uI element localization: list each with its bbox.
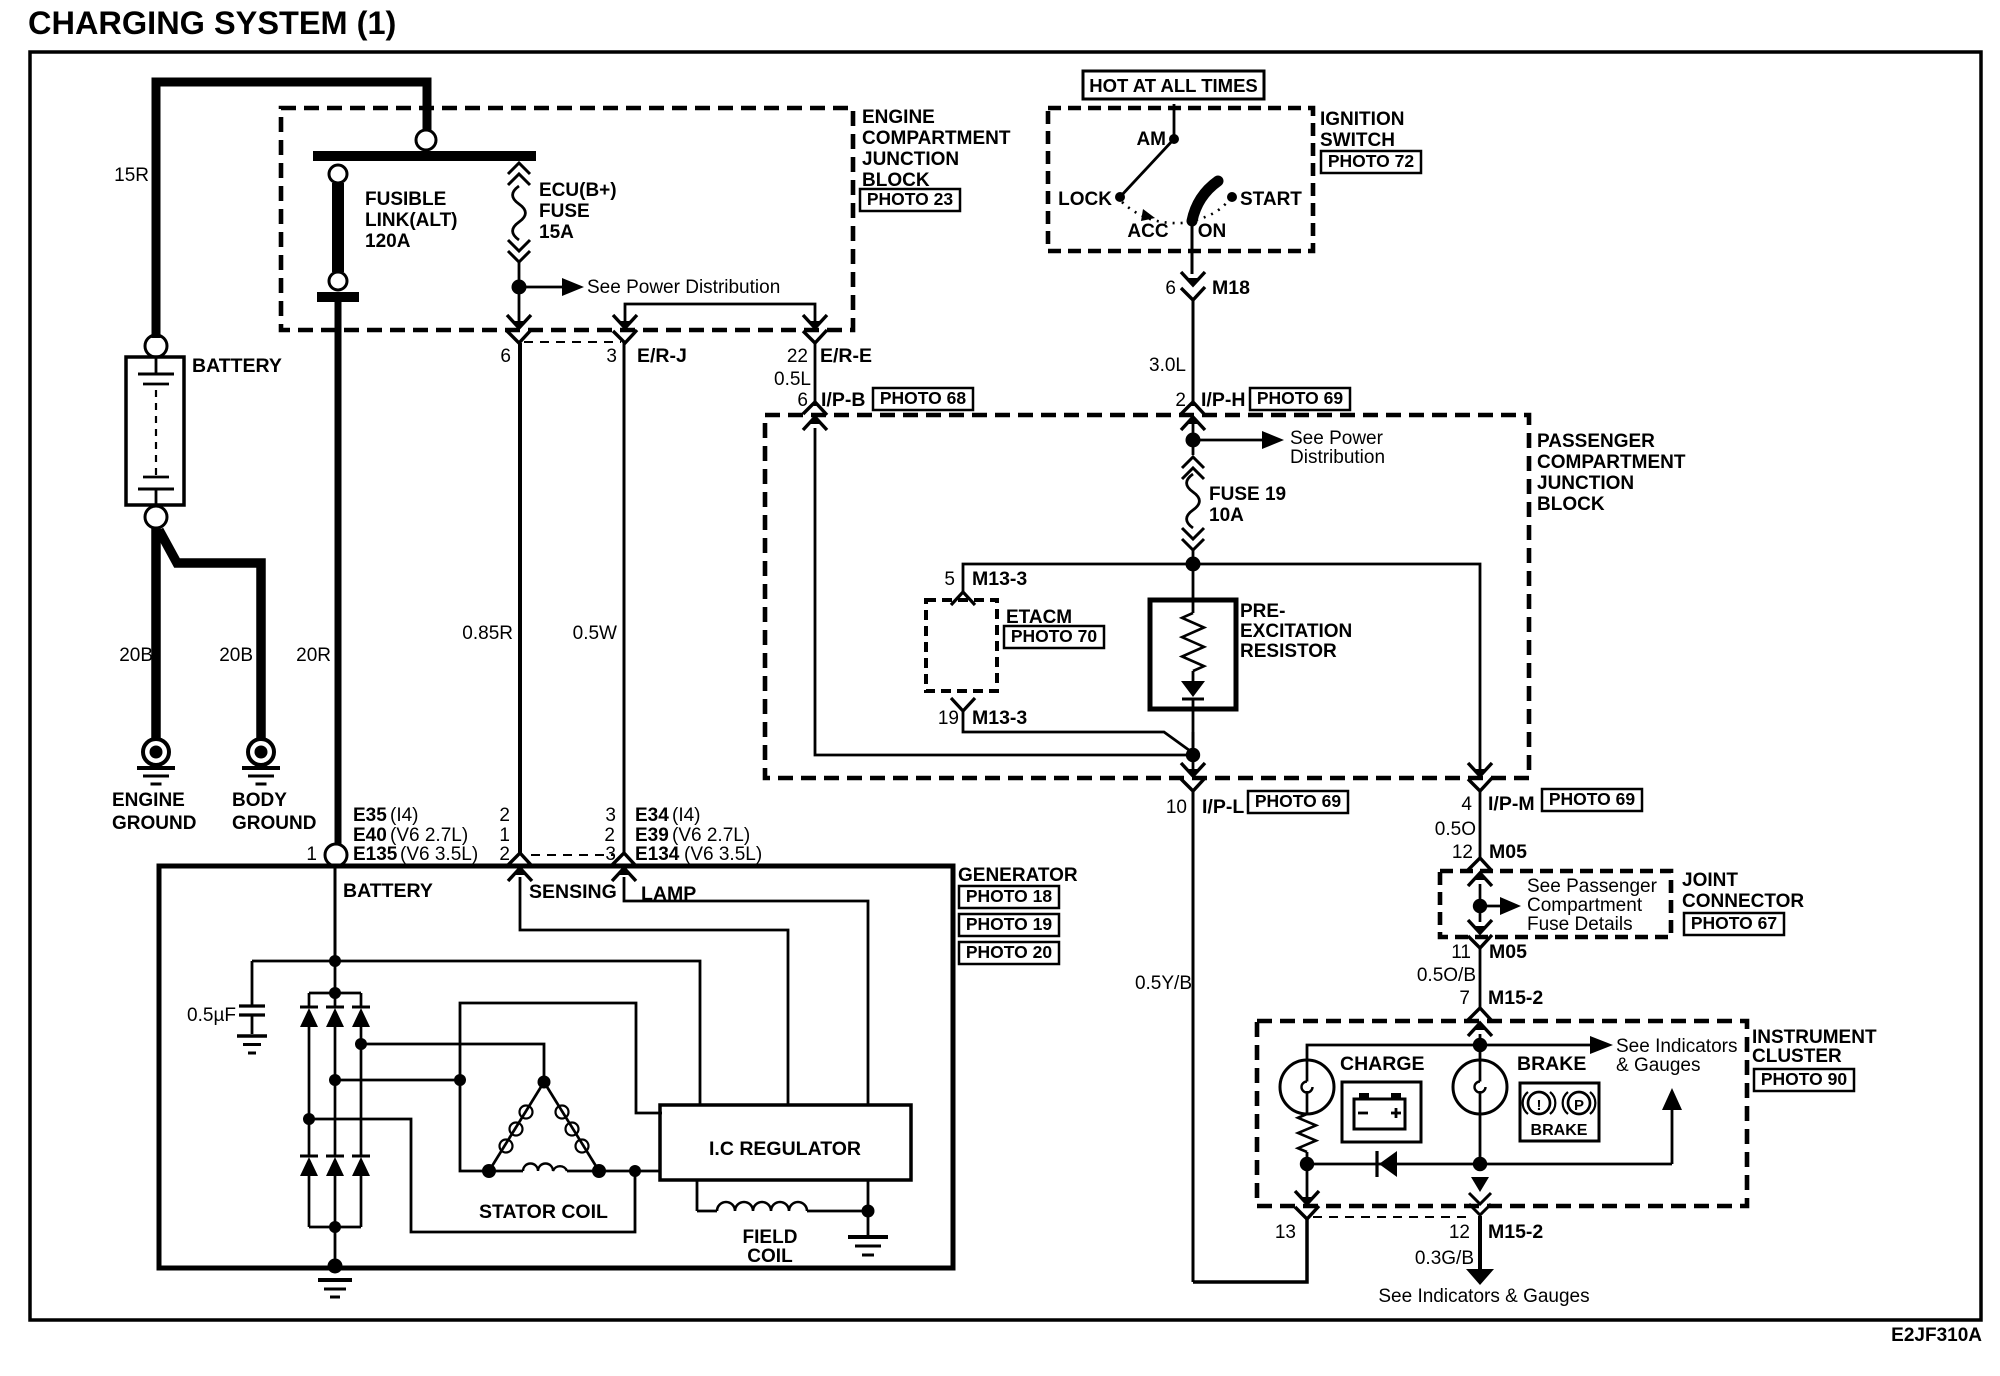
fusible link bottom circle — [329, 272, 347, 290]
svg-text:CONNECTOR: CONNECTOR — [1682, 891, 1804, 912]
connector circle battery bottom — [145, 506, 167, 528]
diode D1 (pointing left) — [1307, 1163, 1672, 1166]
svg-text:AM: AM — [1136, 129, 1166, 150]
LOCK contact — [1115, 192, 1125, 202]
field coil ground — [848, 1235, 888, 1239]
photo 19 box — [959, 914, 1059, 936]
svg-text:PHOTO 19: PHOTO 19 — [966, 914, 1053, 934]
svg-text:ENGINE: ENGINE — [862, 107, 935, 128]
svg-text:ECU(B+): ECU(B+) — [539, 180, 617, 201]
photo 67 box — [1684, 913, 1784, 935]
engine compartment junction block (dashed) — [281, 108, 853, 330]
svg-text:COMPARTMENT: COMPARTMENT — [1537, 452, 1686, 473]
svg-text:10A: 10A — [1209, 505, 1244, 526]
connector 13 (cluster bottom) — [1295, 1191, 1319, 1219]
svg-text:GROUND: GROUND — [112, 813, 196, 834]
svg-text:P: P — [1574, 1097, 1584, 1114]
sensing wire inside generator — [520, 877, 788, 1105]
svg-text:1: 1 — [499, 825, 510, 846]
svg-text:BRAKE: BRAKE — [1531, 1122, 1588, 1139]
svg-text:RESISTOR: RESISTOR — [1240, 641, 1337, 662]
svg-text:7: 7 — [1459, 988, 1470, 1009]
svg-text:M05: M05 — [1489, 941, 1527, 963]
svg-text:13: 13 — [1275, 1222, 1296, 1243]
svg-text:6: 6 — [1165, 278, 1176, 299]
svg-text:JUNCTION: JUNCTION — [1537, 473, 1634, 494]
START contact — [1227, 192, 1237, 202]
svg-text:PHOTO 69: PHOTO 69 — [1549, 789, 1636, 809]
svg-text:LINK(ALT): LINK(ALT) — [365, 210, 458, 231]
svg-text:E39: E39 — [635, 825, 669, 846]
svg-text:BODY: BODY — [232, 790, 287, 811]
instrument cluster box (dashed) — [1257, 1021, 1747, 1206]
photo 69 box (I/P-M) — [1542, 789, 1642, 811]
connector lamp (generator top) — [612, 853, 636, 881]
wire: thick battery feed 15R top run — [156, 82, 427, 338]
battery BAT1 — [126, 357, 184, 505]
connector 6 M18 — [1181, 272, 1205, 300]
svg-text:19: 19 — [938, 708, 959, 729]
HOT AT ALL TIMES box — [1083, 71, 1264, 99]
svg-text:PHOTO 23: PHOTO 23 — [867, 189, 954, 209]
svg-text:22: 22 — [787, 346, 808, 367]
svg-text:20B: 20B — [219, 645, 253, 666]
svg-text:PHOTO 69: PHOTO 69 — [1255, 791, 1342, 811]
wire 3.0L down to I/P-H — [1192, 300, 1195, 406]
svg-text:3: 3 — [606, 346, 617, 367]
svg-text:(V6 3.5L): (V6 3.5L) — [400, 844, 478, 865]
svg-text:See Power Distribution: See Power Distribution — [587, 277, 780, 298]
junction dot battery rail — [329, 955, 341, 967]
svg-text:0.5W: 0.5W — [573, 623, 617, 644]
wire battery terminal into generator — [334, 866, 337, 958]
ignition switch box (dashed) — [1048, 108, 1313, 251]
svg-text:E35: E35 — [353, 805, 387, 826]
photo 69 box (I/P-L) — [1248, 791, 1348, 813]
stator to IC regulator — [599, 1170, 660, 1173]
svg-text:See Indicators: See Indicators — [1616, 1036, 1737, 1057]
svg-text:(V6 2.7L): (V6 2.7L) — [672, 825, 750, 846]
svg-text:0.5Y/B: 0.5Y/B — [1135, 973, 1192, 994]
svg-text:(V6 2.7L): (V6 2.7L) — [390, 825, 468, 846]
photo 72 box — [1321, 151, 1421, 173]
brake lamp L2 — [1453, 1060, 1507, 1114]
photo 20 box — [959, 942, 1059, 964]
charge lamp L1 — [1280, 1060, 1334, 1114]
svg-text:Compartment: Compartment — [1527, 895, 1643, 916]
svg-text:0.5O/B: 0.5O/B — [1417, 965, 1476, 986]
svg-text:SENSING: SENSING — [529, 881, 617, 903]
junction dot below ECU fuse — [512, 280, 527, 295]
junction dot joint connector — [1473, 899, 1487, 913]
svg-text:COMPARTMENT: COMPARTMENT — [862, 128, 1011, 149]
svg-text:STATOR COIL: STATOR COIL — [479, 1201, 608, 1223]
dashed connector link line — [524, 341, 621, 343]
svg-text:E34: E34 — [635, 805, 669, 826]
stator coil frame — [460, 1003, 662, 1171]
connector 4 I/P-M — [1468, 763, 1492, 791]
svg-text:11: 11 — [1451, 942, 1471, 963]
svg-text:PRE-: PRE- — [1240, 601, 1285, 622]
svg-text:E40: E40 — [353, 825, 387, 846]
svg-text:2: 2 — [1175, 390, 1186, 411]
svg-text:FUSIBLE: FUSIBLE — [365, 189, 446, 210]
svg-text:20R: 20R — [296, 645, 331, 666]
fuse ECU(B+) 15A — [508, 163, 530, 185]
svg-text:I/P-B: I/P-B — [821, 389, 865, 411]
connector 7 M15-2 (cluster top) — [1468, 1008, 1492, 1036]
svg-text:0.5L: 0.5L — [774, 369, 811, 390]
svg-text:SWITCH: SWITCH — [1320, 130, 1395, 151]
svg-text:!: ! — [1537, 1097, 1542, 1114]
connector 10 I/P-L — [1181, 763, 1205, 791]
fusible link top circle — [329, 165, 347, 183]
charge battery icon — [1342, 1082, 1421, 1142]
svg-text:LOCK: LOCK — [1058, 189, 1112, 210]
svg-text:FUSE 19: FUSE 19 — [1209, 484, 1286, 505]
wire 0.5L down to I/P-B — [814, 343, 817, 406]
arrow: See Power Distribution (engine block) — [519, 286, 566, 289]
dotted travel arc LOCK-ACC-ON-START — [1122, 202, 1192, 223]
engine ground G1 — [143, 739, 169, 765]
photo 90 box — [1754, 1069, 1854, 1091]
svg-text:I.C REGULATOR: I.C REGULATOR — [709, 1138, 861, 1160]
svg-text:COIL: COIL — [747, 1246, 793, 1267]
svg-text:4: 4 — [1461, 794, 1472, 815]
photo 18 box — [959, 886, 1059, 908]
ETACM box (dashed) — [926, 600, 997, 691]
connector sensing (generator top) — [508, 853, 532, 881]
connector 3 E/R-J — [613, 315, 637, 343]
svg-text:PHOTO 68: PHOTO 68 — [880, 388, 967, 408]
svg-text:3.0L: 3.0L — [1149, 355, 1186, 376]
svg-text:M13-3: M13-3 — [972, 707, 1027, 729]
wire from 13 to 0.5Y/B run — [1193, 1219, 1307, 1282]
svg-text:Fuse Details: Fuse Details — [1527, 914, 1633, 935]
svg-text:PHOTO 70: PHOTO 70 — [1011, 626, 1098, 646]
pre-excitation resistor R1 — [1150, 600, 1236, 709]
up arrow to see indicators — [1671, 1107, 1674, 1164]
svg-text:0.3G/B: 0.3G/B — [1415, 1248, 1474, 1269]
connector 2 I/P-H — [1181, 402, 1205, 430]
svg-text:I/P-L: I/P-L — [1202, 796, 1244, 818]
bridge taps to stator — [355, 1038, 367, 1050]
wire 20B to engine ground — [151, 528, 161, 738]
svg-text:1: 1 — [306, 844, 317, 865]
fusible link FL(ALT) 120A body — [332, 183, 344, 272]
connector 11 M05 (joint connector bottom) — [1468, 920, 1492, 948]
svg-text:CHARGE: CHARGE — [1340, 1053, 1425, 1075]
svg-text:12: 12 — [1449, 1222, 1470, 1243]
photo 69 box (I/P-H) — [1250, 388, 1350, 410]
passenger compartment junction block (dashed) — [765, 415, 1529, 778]
wire down from ECU fuse to connector 6 — [518, 293, 521, 328]
svg-text:0.85R: 0.85R — [462, 623, 513, 644]
svg-text:E135: E135 — [353, 844, 398, 865]
svg-text:20B: 20B — [119, 645, 153, 666]
connector 22 E/R-E — [803, 315, 827, 343]
svg-text:3: 3 — [605, 805, 616, 826]
battery rail to IC regulator — [252, 961, 700, 1105]
svg-text:CLUSTER: CLUSTER — [1752, 1046, 1842, 1067]
generator box — [159, 866, 953, 1268]
svg-text:E134: E134 — [635, 844, 680, 865]
dashed connector link (E135-E134) — [531, 854, 614, 856]
svg-text:HOT AT ALL TIMES: HOT AT ALL TIMES — [1089, 75, 1258, 96]
body ground G2 — [248, 739, 274, 765]
junction dot cluster top rail — [1473, 1038, 1487, 1052]
svg-text:CHARGING SYSTEM (1): CHARGING SYSTEM (1) — [28, 5, 396, 41]
connector 19 M13-3 — [951, 698, 975, 711]
wire 0.5Y/B from I/P-L down — [1192, 790, 1195, 1282]
svg-text:E2JF310A: E2JF310A — [1891, 1325, 1982, 1346]
svg-text:GROUND: GROUND — [232, 813, 316, 834]
svg-text:6: 6 — [500, 346, 511, 367]
photo 70 box — [1004, 626, 1104, 648]
svg-text:I/P-H: I/P-H — [1201, 389, 1245, 411]
svg-text:BLOCK: BLOCK — [1537, 494, 1605, 515]
svg-text:M05: M05 — [1489, 841, 1527, 863]
svg-text:M18: M18 — [1212, 277, 1250, 299]
svg-text:12: 12 — [1452, 842, 1473, 863]
svg-text:EXCITATION: EXCITATION — [1240, 621, 1352, 642]
svg-text:PASSENGER: PASSENGER — [1537, 431, 1655, 452]
brake indicator icon — [1520, 1083, 1599, 1141]
svg-text:See Indicators & Gauges: See Indicators & Gauges — [1378, 1286, 1589, 1307]
fuse 19 10A — [1192, 446, 1195, 455]
junction dot below fuse 19 — [1186, 557, 1201, 572]
dashed connector link 13-12 — [1313, 1216, 1473, 1218]
svg-text:JOINT: JOINT — [1682, 870, 1738, 891]
svg-text:M15-2: M15-2 — [1488, 1221, 1543, 1243]
svg-text:E/R-E: E/R-E — [820, 345, 872, 367]
svg-text:FUSE: FUSE — [539, 201, 590, 222]
svg-text:IGNITION: IGNITION — [1320, 109, 1404, 130]
svg-text:ACC: ACC — [1127, 221, 1168, 242]
svg-text:0.5µF: 0.5µF — [187, 1005, 236, 1026]
connector circle battery top — [145, 335, 167, 357]
svg-text:JUNCTION: JUNCTION — [862, 149, 959, 170]
wire I/P-B to node — [815, 428, 1187, 755]
svg-text:See Passenger: See Passenger — [1527, 876, 1658, 897]
svg-text:FIELD: FIELD — [743, 1227, 798, 1248]
svg-text:PHOTO 67: PHOTO 67 — [1691, 913, 1777, 933]
svg-text:E/R-J: E/R-J — [637, 345, 687, 367]
svg-text:15R: 15R — [114, 165, 149, 186]
wire 13 down from charge node — [1306, 1164, 1309, 1198]
svg-text:GENERATOR: GENERATOR — [958, 865, 1078, 886]
svg-text:Distribution: Distribution — [1290, 447, 1385, 468]
rectifier diode bridge — [334, 961, 337, 993]
wire from E/R-J up over to E/R-E — [625, 304, 815, 330]
svg-text:5: 5 — [944, 569, 955, 590]
svg-text:PHOTO 18: PHOTO 18 — [966, 886, 1053, 906]
junction dot charge/diode — [1300, 1157, 1314, 1171]
rail wire to ETACM and I/P-M — [963, 564, 1480, 772]
fusible link bottom T-bar — [317, 292, 359, 302]
wire 20B to body ground — [159, 530, 261, 738]
svg-text:ENGINE: ENGINE — [112, 790, 185, 811]
connector circle bus bar top — [416, 130, 436, 150]
capacitor C1 0.5uF — [251, 961, 254, 1005]
wire ETACM return to I/P-L node — [963, 711, 1193, 753]
wire from ON down to M18 — [1191, 222, 1194, 274]
ON contact thick arc — [1192, 181, 1218, 221]
svg-text:PHOTO 69: PHOTO 69 — [1257, 388, 1344, 408]
svg-text:(V6 3.5L): (V6 3.5L) — [684, 844, 762, 865]
svg-text:0.5O: 0.5O — [1435, 819, 1476, 840]
wire I/P-H into block — [1192, 424, 1195, 437]
svg-text:M13-3: M13-3 — [972, 568, 1027, 590]
joint connector box (dashed) — [1440, 871, 1671, 937]
wire 0.85R down to generator sensing — [518, 343, 522, 854]
svg-text:15A: 15A — [539, 222, 574, 243]
connector 5 M13-3 — [951, 592, 975, 605]
svg-text:START: START — [1240, 189, 1302, 210]
svg-text:2: 2 — [604, 825, 615, 846]
svg-text:(I4): (I4) — [672, 805, 701, 826]
IC regulator U1 — [660, 1105, 911, 1180]
svg-text:PHOTO 72: PHOTO 72 — [1328, 151, 1415, 171]
svg-text:(I4): (I4) — [390, 805, 419, 826]
field coil — [696, 1180, 699, 1211]
connector circle 1 (battery terminal) — [325, 844, 347, 866]
rail to charge lamp and see-indicators arrow — [1307, 1045, 1594, 1060]
bus bar in junction block — [313, 151, 536, 161]
stator coil (delta) — [538, 1076, 551, 1089]
svg-text:BRAKE: BRAKE — [1517, 1053, 1586, 1075]
wire 0.5O/B down to M15-2 — [1479, 947, 1482, 1007]
wire 0.5O down to M05 — [1479, 790, 1482, 860]
svg-text:120A: 120A — [365, 231, 411, 252]
svg-text:PHOTO 20: PHOTO 20 — [966, 942, 1053, 962]
connector 6 (junction block bottom) — [507, 315, 531, 343]
svg-text:See Power: See Power — [1290, 428, 1384, 449]
wire 20R from fusible link down to generator — [335, 302, 342, 844]
svg-text:ON: ON — [1198, 221, 1227, 242]
generator internal ground — [334, 1227, 337, 1266]
svg-text:6: 6 — [797, 390, 808, 411]
svg-text:2: 2 — [499, 844, 510, 865]
connector 6 I/P-B — [803, 402, 827, 430]
wire 0.5W down to generator lamp — [623, 343, 626, 854]
photo 68 box — [873, 388, 973, 410]
svg-text:PHOTO 90: PHOTO 90 — [1761, 1069, 1848, 1089]
svg-text:INSTRUMENT: INSTRUMENT — [1752, 1027, 1877, 1048]
svg-text:BATTERY: BATTERY — [192, 355, 282, 377]
junction dot I/P-H — [1186, 433, 1201, 448]
resistor below charge lamp — [1298, 1114, 1316, 1152]
photo 23 box — [860, 189, 960, 211]
svg-text:10: 10 — [1166, 797, 1187, 818]
junction dot brake lamp — [1473, 1157, 1487, 1171]
switch wiper AM-LOCK — [1120, 139, 1174, 197]
connector 12 M15-2 (cluster bottom) — [1471, 1177, 1489, 1192]
connector 12 M05 (joint connector top) — [1468, 858, 1492, 886]
arrow: See Power Distribution (passenger block) — [1193, 439, 1266, 442]
svg-text:2: 2 — [499, 805, 510, 826]
lamp wire inside generator — [624, 877, 868, 1105]
svg-text:M15-2: M15-2 — [1488, 987, 1543, 1009]
svg-text:I/P-M: I/P-M — [1488, 793, 1535, 815]
ignition switch SW1 internals — [1173, 104, 1176, 136]
junction dot I/P-L node — [1186, 748, 1200, 762]
svg-text:BATTERY: BATTERY — [343, 880, 433, 902]
svg-text:& Gauges: & Gauges — [1616, 1055, 1701, 1076]
